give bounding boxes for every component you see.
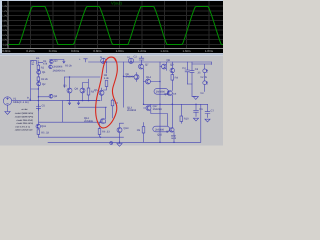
wire R3 (88, 83, 90, 101)
wire long y77 (65, 76, 101, 78)
svg-text:2N3904: 2N3904 (127, 109, 137, 112)
svg-text:V3: V3 (200, 92, 204, 95)
transistor Q14 (driver) (146, 79, 151, 84)
svg-text:.model 2955 PNP(: .model 2955 PNP( (16, 119, 33, 122)
svg-text:0.6V: 0.6V (2, 24, 7, 27)
connector circle on rail (110, 142, 113, 145)
wire R7 (112, 99, 114, 118)
resistor R4 (171, 75, 174, 81)
wire C1 down (37, 63, 39, 66)
wire stub top left (50, 60, 65, 64)
resistor R3 (87, 88, 90, 95)
svg-text:1.2V: 1.2V (2, 10, 7, 13)
svg-text:V1: V1 (13, 98, 17, 101)
trace V(out) (8, 7, 223, 45)
arrow ground A (68, 101, 70, 105)
input pair Q3b (49, 65, 53, 69)
svg-text:2N3906 bc: 2N3906 bc (53, 69, 66, 72)
wire rail end (210, 62, 212, 65)
wire Q7 down (143, 69, 145, 104)
wire Q17 (144, 104, 168, 126)
svg-text:Q15: Q15 (157, 134, 162, 137)
y axis labels (2, 5, 8, 46)
window divider strip (0, 53, 223, 56)
svg-text:C6: C6 (199, 108, 203, 111)
svg-text:.model Q6099 NPN(: .model Q6099 NPN( (15, 116, 34, 119)
transistor Q7 (on rail) (139, 64, 144, 69)
wire R6 (99, 122, 101, 137)
svg-text:C2: C2 (134, 55, 138, 58)
svg-text:2N6099: 2N6099 (153, 108, 163, 111)
wire left vert (64, 77, 66, 88)
voltage source V2 (203, 69, 208, 73)
svg-text:R4: R4 (175, 76, 179, 79)
transistor Q15 (170, 128, 175, 133)
rail flag +35 (84, 59, 88, 62)
transistor Q8 (162, 64, 167, 69)
svg-text:Q4: Q4 (75, 88, 79, 91)
svg-text:R6 .33: R6 .33 (102, 130, 110, 133)
svg-text:Q5: Q5 (94, 89, 98, 92)
svg-text:0.8ms: 0.8ms (93, 49, 102, 53)
transistor Q2b (49, 94, 53, 98)
oval label B 2N5886 (153, 126, 170, 132)
svg-text:0.0V: 0.0V (2, 39, 7, 42)
wire Q15 (172, 104, 174, 142)
svg-text:R2: R2 (41, 67, 45, 70)
capacitor C2 (139, 56, 144, 62)
svg-text:Q9: Q9 (170, 63, 174, 66)
wire R9 (143, 123, 145, 143)
wire vbe stack top (106, 62, 108, 73)
ground under V1 (5, 112, 10, 115)
x axis labels (2, 49, 213, 53)
svg-text:1.2ms: 1.2ms (138, 49, 147, 53)
svg-text:-0.2V: -0.2V (2, 44, 8, 47)
current source I2 (128, 58, 133, 63)
ground C6 (193, 118, 198, 121)
ground mid right (193, 97, 198, 100)
junction dots (38, 61, 197, 142)
capacitor C4r (190, 62, 194, 84)
transistor Q2 (37, 82, 41, 86)
wire V1 down (7, 105, 9, 111)
svg-text:C3: C3 (182, 67, 186, 70)
transistor Q10 (output right) (167, 91, 172, 96)
svg-text:1.0ms: 1.0ms (116, 49, 125, 53)
wire lower bus (38, 136, 123, 138)
svg-text:2N5886: 2N5886 (156, 91, 166, 94)
svg-text:out: out (173, 92, 177, 95)
capacitor C1 (36, 61, 38, 65)
svg-text:0.4ms: 0.4ms (49, 49, 58, 53)
resistor R1b (37, 77, 40, 81)
wire Q12 (101, 107, 106, 123)
resistor R10 (180, 104, 183, 123)
svg-text:0.2V: 0.2V (2, 34, 7, 37)
svg-text:in1: in1 (36, 57, 40, 60)
svg-text:1.0V: 1.0V (2, 15, 7, 18)
svg-text:C7: C7 (211, 109, 215, 112)
svg-text:Q7: Q7 (145, 64, 149, 67)
svg-text:47k: 47k (43, 62, 48, 65)
svg-text:2N5886: 2N5886 (84, 120, 94, 123)
svg-text:0.0ms: 0.0ms (2, 49, 11, 53)
wire Q2 emitter to input node (37, 81, 39, 101)
wire Q13 (120, 123, 124, 142)
wire x160 vertical (159, 62, 161, 142)
capacitor C6 (194, 104, 199, 116)
svg-text:3.3k: 3.3k (104, 77, 110, 80)
wire Q10 down (171, 95, 173, 104)
svg-text:.model Q5886 NPN(: .model Q5886 NPN( (15, 112, 34, 115)
svg-text:R5 .33: R5 .33 (41, 131, 49, 134)
resistor R9 (142, 127, 145, 134)
wire right h104 (144, 103, 208, 105)
svg-text:0.6ms: 0.6ms (71, 49, 80, 53)
power rail (89, 61, 212, 63)
resistor R7 (111, 100, 114, 106)
svg-text:Q3: Q3 (63, 85, 67, 88)
svg-text:0.8V: 0.8V (2, 20, 7, 23)
svg-text:.model 3055 NPN(: .model 3055 NPN( (16, 122, 33, 125)
svg-text:.tran 0 2ms 0 1u: .tran 0 2ms 0 1u (15, 125, 31, 128)
waveform window background (0, 0, 223, 55)
svg-text:Q?: Q? (166, 131, 170, 134)
input pair Q3a (50, 60, 54, 64)
wire bottom rail (48, 104, 201, 142)
resistor R5 (37, 130, 40, 135)
wire vbe bottom (102, 87, 107, 101)
svg-text:2N5886: 2N5886 (155, 128, 165, 131)
transistor Q5 (vbe multiplier) (99, 90, 104, 95)
transistor Q12 (output) (101, 119, 106, 124)
wire y107 (63, 101, 107, 123)
svg-text:Q1: Q1 (42, 71, 46, 74)
resistor R6 (98, 129, 101, 135)
svg-text:Q8: Q8 (167, 59, 171, 62)
ground C7 (205, 119, 210, 122)
wire Q7 base (142, 62, 144, 69)
wire Q1 down (37, 70, 39, 77)
grid vertical (31, 1, 209, 48)
capacitor C7 (205, 104, 210, 117)
oval label A 2N5886 (154, 89, 168, 95)
schematic background (0, 56, 223, 146)
ground under rail (117, 142, 122, 146)
transistor Q9 (170, 68, 175, 73)
transistor Q3 (67, 88, 72, 93)
svg-text:1.4V: 1.4V (2, 5, 7, 8)
svg-text:2N3906: 2N3906 (53, 65, 63, 68)
capacitor C5 (36, 104, 40, 110)
svg-text:1.4ms: 1.4ms (160, 49, 169, 53)
wire Q6 base (124, 73, 137, 82)
transistor Q17 (driver low) (146, 106, 151, 111)
transistor Q13 (117, 128, 122, 133)
transistor Q11 (36, 124, 40, 128)
transistor Q6 (134, 75, 139, 80)
svg-text:Q11: Q11 (41, 125, 46, 128)
wire diff emitters (67, 93, 100, 101)
svg-text:Q2: Q2 (42, 83, 46, 86)
svg-text:R10: R10 (184, 118, 189, 121)
wire caps to gnd (187, 84, 196, 97)
voltage source V3 (203, 81, 208, 85)
svg-text:.ac dec: .ac dec (21, 108, 28, 111)
svg-text:1.8ms: 1.8ms (205, 49, 214, 53)
arrow ground B (77, 101, 79, 105)
transistor Q1 (37, 70, 41, 74)
svg-text:SINE(0 .6 1k): SINE(0 .6 1k) (13, 101, 29, 104)
wire input left loop (31, 60, 43, 100)
spice directive text block (15, 108, 34, 132)
svg-text:Q14: Q14 (146, 76, 151, 79)
red annotation loop (96, 57, 118, 128)
svg-text:R3 2k: R3 2k (41, 78, 48, 81)
wire R5 down (37, 134, 39, 137)
wire Q8 conn (160, 62, 166, 70)
plot area (2, 1, 223, 53)
svg-text:V(out): V(out) (111, 1, 123, 6)
wire VAS vertical (123, 62, 125, 107)
wire R4 down (171, 80, 173, 90)
current source I1 (101, 58, 106, 63)
svg-text:C5: C5 (42, 104, 46, 107)
svg-text:Q13: Q13 (124, 127, 129, 130)
wire vin horizontal (12, 100, 100, 102)
wire Q9 (171, 62, 173, 75)
voltage source V1 (input) (3, 97, 11, 105)
svg-text:R5 2k: R5 2k (65, 65, 72, 68)
svg-text:.options plotwinsize: .options plotwinsize (15, 129, 34, 132)
svg-text:Q4: Q4 (54, 95, 58, 98)
svg-text:Q3: Q3 (54, 60, 58, 63)
svg-text:0.2ms: 0.2ms (26, 49, 35, 53)
capacitor C3 (185, 62, 189, 84)
svg-text:R9: R9 (137, 129, 141, 132)
plot frame (2, 1, 223, 49)
resistor R2 (37, 65, 40, 69)
svg-text:0.4V: 0.4V (2, 29, 7, 32)
svg-text:1.6ms: 1.6ms (183, 49, 192, 53)
wire mid out (39, 101, 101, 124)
svg-text:V2 35: V2 35 (200, 76, 207, 79)
wire V column (192, 64, 211, 92)
grid horizontal (8, 6, 223, 44)
transistor Q4 (80, 88, 85, 93)
wire mid stub y96.8 (38, 96, 49, 98)
wire Q3 Q4 bases (70, 77, 89, 88)
resistor R8 (105, 81, 108, 87)
wire Q14 (144, 82, 161, 85)
